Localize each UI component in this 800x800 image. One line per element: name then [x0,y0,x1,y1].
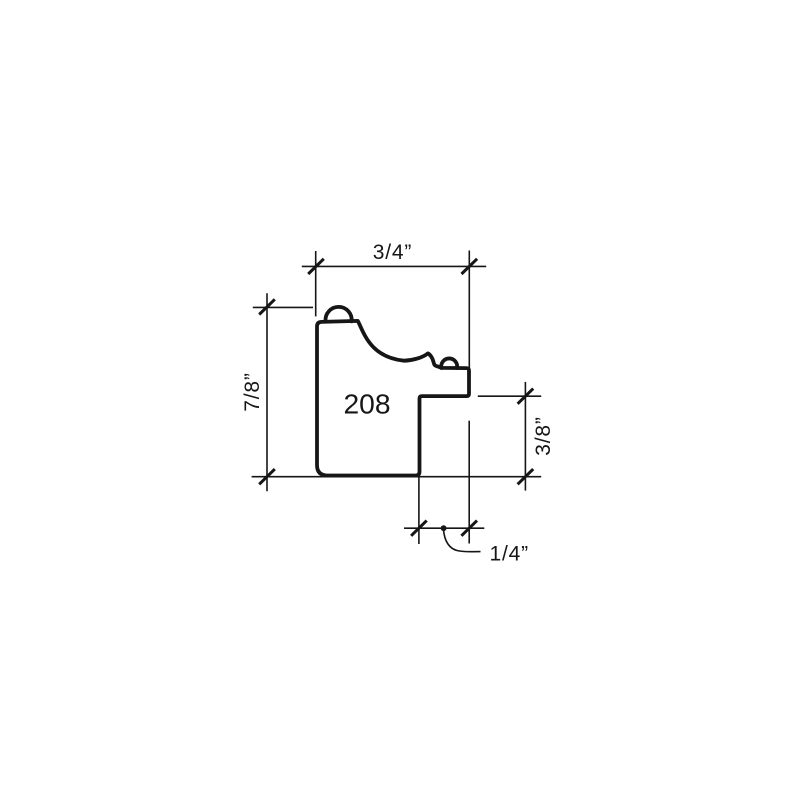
right extension line of 3/4" dimension [468,251,470,368]
leader curve from dot to 1/4" label [444,531,481,552]
tick at right end of 3/4" dimension [462,259,478,274]
tick at right end of 1/4" dimension [461,521,477,536]
svg-text:3/8”: 3/8” [532,416,555,455]
top extension line of 3/8" dimension [478,395,541,397]
large bead dome on top edge of profile [325,307,351,322]
tick at top end of 7/8" dimension [259,299,275,314]
small bead dome on lip of profile [441,358,457,368]
svg-text:1/4”: 1/4” [490,542,529,565]
reference dot on 1/4" dimension line [441,525,447,531]
right extension line of 1/4" dimension [468,421,470,544]
left extension line of 1/4" dimension [418,478,420,545]
tick at left end of 3/4" dimension [308,259,324,274]
left dimension line 7/8" [266,293,268,491]
svg-text:208: 208 [343,388,390,420]
tick at bottom end of 3/8" dimension [518,469,534,484]
tick at top end of 3/8" dimension [518,389,534,404]
moulding profile outline 208 [317,321,469,476]
right dimension line 3/8" [524,382,526,491]
bottom dimension line 1/4" [404,527,484,529]
left extension line of 3/4" dimension [315,251,317,316]
bottom reference line (shared extension of 7/8" and 3/8") [252,476,542,478]
top extension line of 7/8" dimension [253,306,313,308]
tick at left end of 1/4" dimension [411,521,427,536]
top dimension line 3/4" [302,265,486,267]
svg-text:3/4”: 3/4” [373,241,412,264]
svg-text:7/8”: 7/8” [241,372,264,411]
tick at bottom end of 7/8" dimension [259,469,275,484]
